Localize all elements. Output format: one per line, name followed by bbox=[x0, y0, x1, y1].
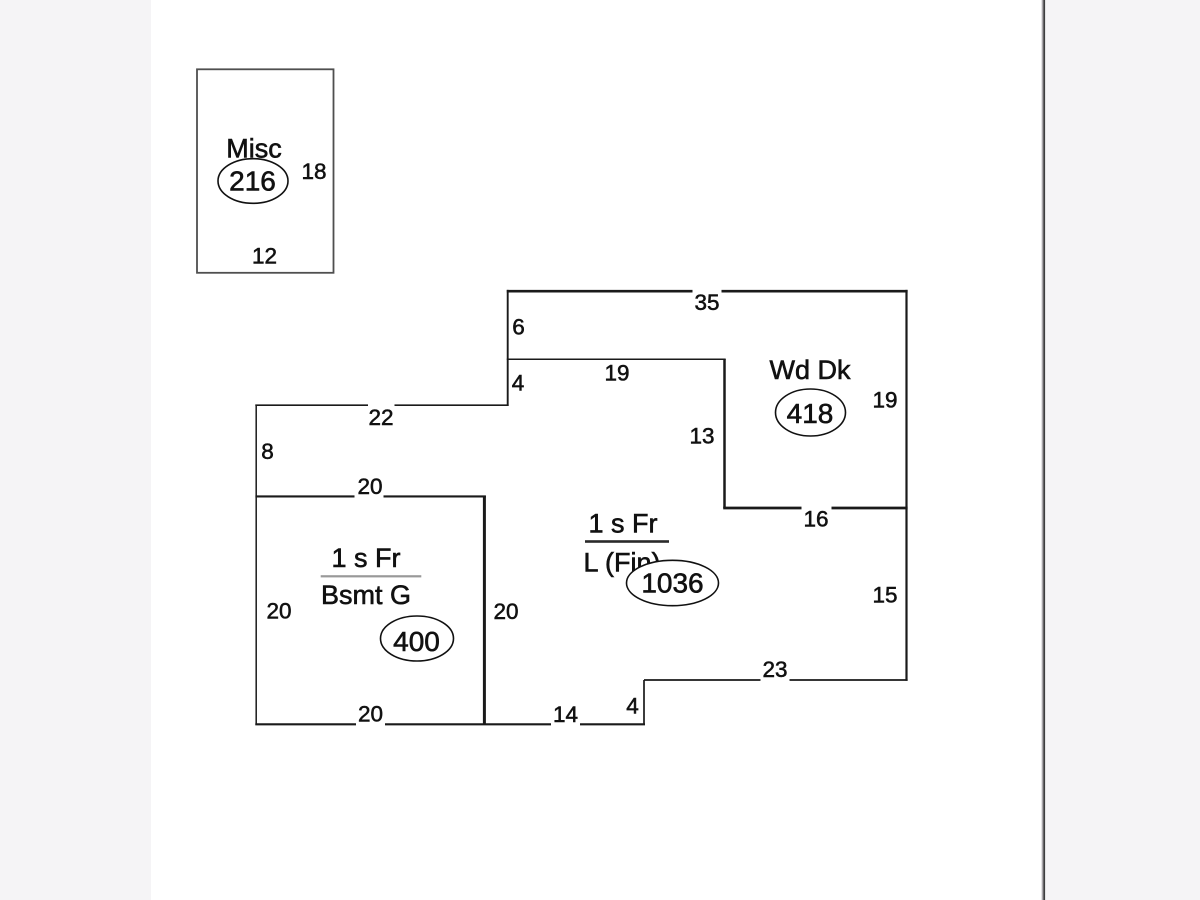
svg-text:400: 400 bbox=[393, 626, 440, 657]
svg-text:23: 23 bbox=[762, 657, 787, 682]
svg-text:8: 8 bbox=[261, 439, 274, 464]
svg-text:20: 20 bbox=[358, 702, 383, 727]
svg-text:1 s Fr: 1 s Fr bbox=[331, 543, 400, 573]
svg-text:18: 18 bbox=[301, 159, 326, 184]
svg-text:20: 20 bbox=[357, 474, 382, 499]
svg-text:14: 14 bbox=[553, 702, 578, 727]
svg-text:12: 12 bbox=[252, 244, 277, 269]
svg-text:Bsmt G: Bsmt G bbox=[321, 580, 411, 610]
svg-text:19: 19 bbox=[604, 361, 629, 386]
svg-text:15: 15 bbox=[872, 583, 897, 608]
svg-text:22: 22 bbox=[368, 405, 393, 430]
svg-text:4: 4 bbox=[626, 694, 639, 719]
svg-text:418: 418 bbox=[787, 398, 834, 429]
svg-text:16: 16 bbox=[803, 507, 828, 532]
svg-text:1 s Fr: 1 s Fr bbox=[588, 509, 657, 539]
svg-text:Wd Dk: Wd Dk bbox=[770, 355, 852, 385]
svg-text:35: 35 bbox=[694, 290, 719, 315]
svg-text:19: 19 bbox=[872, 388, 897, 413]
svg-text:6: 6 bbox=[512, 314, 525, 339]
svg-text:13: 13 bbox=[689, 424, 714, 449]
svg-text:216: 216 bbox=[229, 166, 276, 197]
svg-text:20: 20 bbox=[493, 599, 518, 624]
svg-text:1036: 1036 bbox=[641, 568, 703, 599]
svg-text:20: 20 bbox=[266, 599, 291, 624]
svg-text:4: 4 bbox=[512, 371, 525, 396]
